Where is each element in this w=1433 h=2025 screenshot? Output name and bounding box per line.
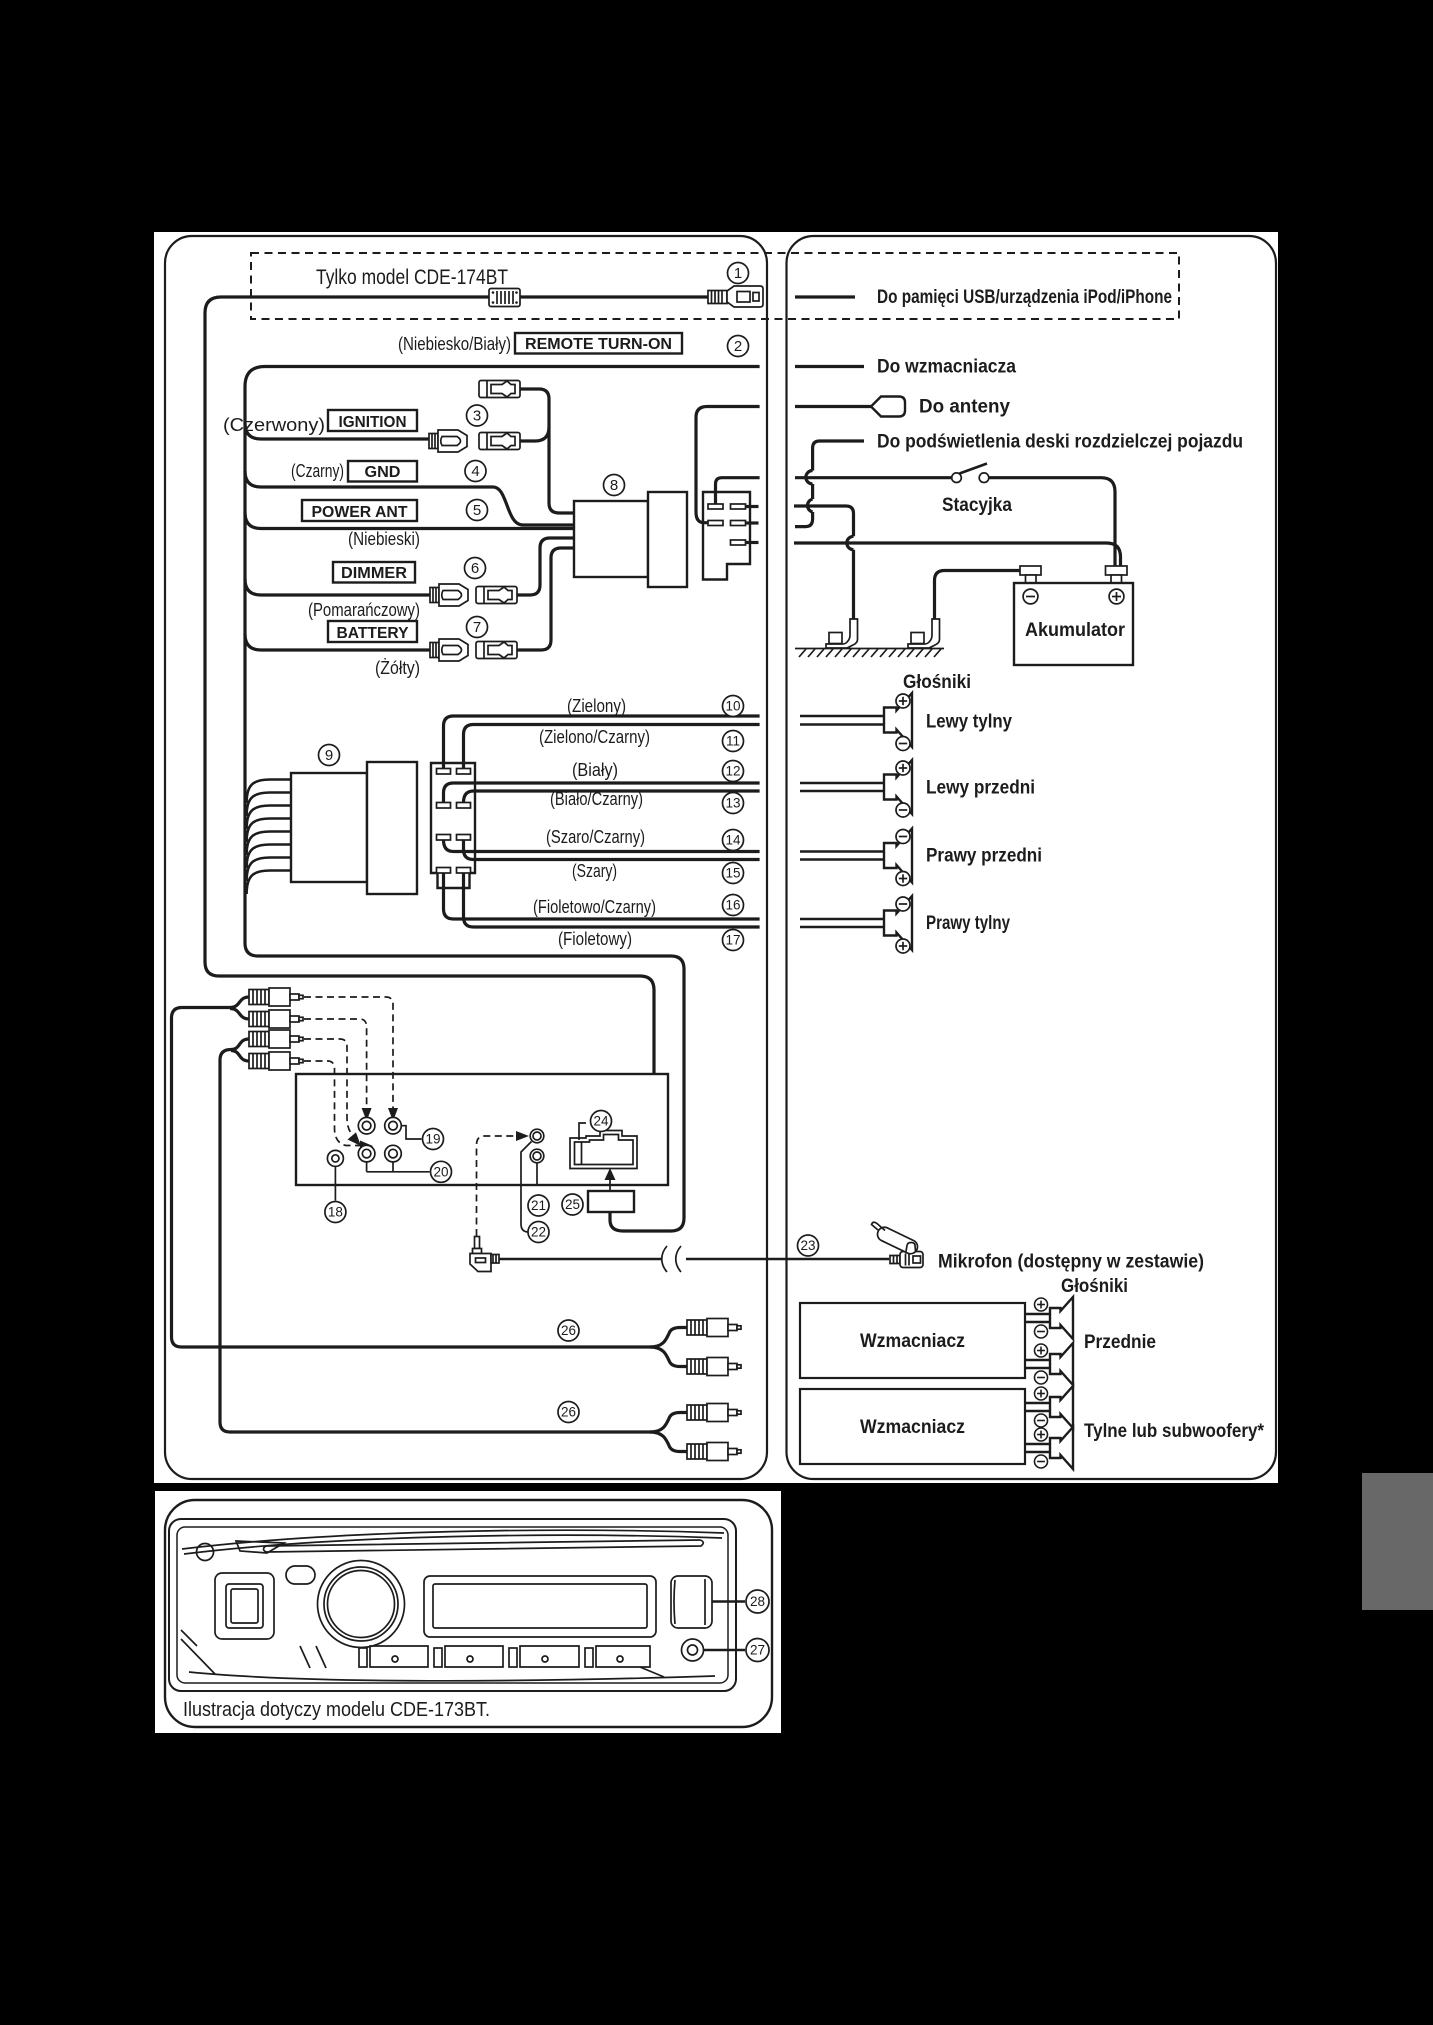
svg-text:(Czerwony): (Czerwony) — [223, 415, 325, 435]
wire: ground feed — [794, 506, 854, 621]
connector 9: harness block right — [367, 762, 417, 894]
wire: remote turn-on / spine — [245, 367, 760, 1232]
wire 16 (Fioletowo/Czarny) — [444, 873, 760, 919]
svg-text:16: 16 — [725, 898, 740, 913]
connector: RCA plug row2 — [249, 1010, 303, 1028]
jack 21 — [530, 1129, 544, 1143]
connector: ignition vehicle female (upper) — [479, 381, 520, 398]
svg-text:9: 9 — [325, 747, 333, 764]
wire 14 (Szaro/Czarny) — [444, 840, 760, 852]
svg-text:8: 8 — [610, 477, 618, 494]
cable break symbol — [662, 1246, 681, 1272]
wire 13 (Bialo/Czarny) — [464, 791, 760, 803]
switch lever — [960, 464, 988, 474]
output 26a split — [650, 1328, 687, 1367]
node: circled 5 — [467, 500, 488, 521]
ground lug 2 — [908, 619, 940, 648]
wire: stacyjka feed left part — [795, 476, 952, 479]
node: circled 6 — [465, 558, 486, 579]
left panel border — [165, 236, 767, 1479]
svg-text:27: 27 — [750, 1643, 765, 1658]
svg-text:Do wzmacniacza: Do wzmacniacza — [877, 357, 1016, 378]
connector: RCA out A2 — [687, 1358, 741, 1376]
leader to circled 18 — [334, 1167, 336, 1201]
svg-text:Lewy tylny: Lewy tylny — [926, 712, 1012, 733]
svg-text:Głośniki: Głośniki — [1061, 1276, 1128, 1297]
node circled 25 — [562, 1194, 583, 1215]
svg-text:26: 26 — [561, 1323, 576, 1338]
gray tab right edge — [1362, 1473, 1433, 1610]
amp speaker 2 — [1050, 1343, 1073, 1385]
wire stub from jack22 — [536, 1163, 538, 1186]
wire: dimmer branch — [245, 579, 430, 595]
jack 22 — [530, 1149, 544, 1163]
node circled 18 — [325, 1202, 346, 1223]
svg-text:28: 28 — [750, 1594, 765, 1609]
wire pair speaker 1 — [800, 716, 884, 725]
wire: ignition pair to junction — [520, 427, 549, 441]
wire 12 (Bialy) — [444, 783, 760, 803]
wire pair amp speaker 2 — [1025, 1360, 1050, 1368]
label box GND — [348, 461, 417, 482]
svg-text:BATTERY: BATTERY — [337, 625, 409, 642]
svg-text:Akumulator: Akumulator — [1025, 620, 1126, 641]
wire: stub pin col2 row1 — [746, 505, 759, 508]
wire: fan wire 7 — [247, 858, 291, 882]
svg-text:10: 10 — [725, 699, 740, 714]
svg-text:(Żółty): (Żółty) — [375, 658, 420, 678]
battery plus terminal — [1106, 566, 1128, 583]
node: circled 4 — [465, 461, 486, 482]
connector: ignition male — [429, 430, 467, 452]
connector: RCA out A1 — [687, 1319, 741, 1337]
wire: battery minus to ground — [935, 571, 1021, 622]
leader to circled 20 — [367, 1162, 430, 1172]
svg-text:13: 13 — [725, 796, 740, 811]
minus as4 — [1034, 1455, 1047, 1468]
svg-text:Prawy tylny: Prawy tylny — [926, 913, 1010, 934]
node: circled 9 — [319, 745, 340, 766]
battery minus symbol — [1023, 589, 1038, 604]
pin ISO r2c1 — [437, 803, 451, 809]
white sheet top — [154, 232, 1278, 1483]
connector: RCA plug row3 — [249, 1030, 303, 1048]
plus as1 — [1034, 1298, 1047, 1311]
jack 18 — [327, 1150, 343, 1166]
small circle top-left — [197, 1544, 214, 1561]
dashed lead row2 to jack 19L — [304, 1019, 367, 1108]
amplifier box 2 — [800, 1389, 1025, 1464]
wire pair amp speaker 1 — [1025, 1314, 1050, 1322]
svg-text:Tylne lub subwoofery*: Tylne lub subwoofery* — [1084, 1421, 1265, 1442]
node circled 24 — [591, 1111, 612, 1132]
bottom button row — [300, 1646, 650, 1668]
usb cover (item 28 target) — [671, 1576, 712, 1628]
label box DIMMER — [333, 562, 415, 583]
pin ISO r2c2 — [457, 803, 471, 809]
wire 10 (Zielony) — [444, 716, 760, 769]
svg-text:3: 3 — [473, 408, 481, 425]
wire pair speaker 2 — [800, 783, 884, 791]
svg-text:GND: GND — [365, 464, 401, 481]
node: circled 2 — [728, 336, 749, 357]
pin ISO r3c2 — [457, 835, 471, 841]
amp speaker 4 — [1050, 1427, 1073, 1469]
node circled 17 — [723, 930, 744, 951]
wire: GND branch into connector 8 — [245, 471, 574, 525]
svg-text:(Fioletowy): (Fioletowy) — [558, 929, 632, 949]
wire: battery branch — [245, 634, 430, 650]
svg-text:24: 24 — [593, 1114, 609, 1129]
connector: inline 4-pin connector on USB cable — [489, 289, 520, 307]
svg-text:Do pamięci USB/urządzenia iPod: Do pamięci USB/urządzenia iPod/iPhone — [877, 287, 1172, 308]
minus sp3 — [896, 830, 910, 844]
connector: RCA plug row4 — [249, 1052, 303, 1070]
wire: right amplifier remote line — [795, 365, 864, 368]
right panel border — [787, 236, 1277, 1479]
jack 19L — [358, 1117, 375, 1134]
cable: RCA pair B second plug — [231, 1051, 249, 1062]
svg-text:POWER ANT: POWER ANT — [312, 504, 408, 521]
node circled 11 — [723, 731, 744, 752]
disc slot — [264, 1540, 704, 1552]
node circled 21 — [528, 1195, 549, 1216]
svg-text:(Zielono/Czarny): (Zielono/Czarny) — [539, 727, 650, 747]
connector: vehicle ISO block — [431, 763, 475, 888]
node circled 14 — [723, 830, 744, 851]
label box IGNITION — [328, 410, 417, 431]
pin c8 col2 row1 — [731, 504, 746, 509]
white sheet bottom — [155, 1491, 781, 1733]
wire: ignition female to connector 8 — [520, 389, 574, 513]
svg-text:1: 1 — [734, 265, 742, 282]
arrow from 25 to 24 — [609, 1179, 611, 1190]
plus sp3 — [896, 872, 910, 886]
svg-text:Mikrofon (dostępny w zestawie): Mikrofon (dostępny w zestawie) — [938, 1252, 1204, 1273]
dashed box: Tylko model CDE-174BT — [251, 253, 1179, 319]
connector: battery male — [430, 639, 468, 661]
wire pair amp speaker 4 — [1025, 1444, 1050, 1452]
svg-text:Do podświetlenia deski rozdzie: Do podświetlenia deski rozdzielczej poja… — [877, 432, 1243, 453]
svg-text:4: 4 — [471, 463, 479, 480]
cable: RCA pair B to output 26b — [220, 1039, 652, 1432]
rear panel box — [296, 1074, 668, 1185]
connector: ignition female — [479, 433, 520, 450]
svg-text:Tylko model CDE-174BT: Tylko model CDE-174BT — [316, 266, 508, 289]
output 26b split — [650, 1413, 687, 1452]
svg-text:15: 15 — [725, 866, 740, 881]
wire jump-over 1 on dash illumination — [806, 471, 813, 485]
svg-text:Wzmacniacz: Wzmacniacz — [860, 1331, 965, 1352]
wire: right USB line — [795, 295, 855, 298]
bottom panel border — [165, 1500, 772, 1727]
chassis ground hatched strip — [795, 649, 944, 658]
faceplate chrome swoosh — [182, 1530, 724, 1554]
wire 15 (Szary) — [464, 840, 760, 860]
node: circled 1 — [728, 263, 749, 284]
jack 20R — [385, 1145, 402, 1162]
connector: USB plug (item 1) — [708, 286, 763, 307]
svg-text:(Szary): (Szary) — [572, 861, 617, 881]
pin ISO r1c2 — [457, 769, 471, 775]
svg-text:18: 18 — [328, 1205, 343, 1220]
svg-text:5: 5 — [473, 502, 481, 519]
pin ISO r4c1 — [437, 868, 451, 874]
speaker Prawy tylny — [884, 896, 912, 950]
connector: RCA out B1 — [687, 1404, 741, 1422]
node circled 27 — [746, 1639, 769, 1662]
wire 11 (Zielono/Czarny) — [464, 725, 760, 769]
plus sp1 — [896, 694, 910, 708]
amp speaker 1 — [1050, 1297, 1073, 1339]
wire: battery female to connector 8 — [515, 548, 574, 650]
svg-text:Lewy przedni: Lewy przedni — [926, 778, 1035, 799]
svg-text:Wzmacniacz: Wzmacniacz — [860, 1417, 965, 1438]
leader 28 — [712, 1600, 745, 1603]
head unit outer frame — [169, 1519, 736, 1691]
faceplate corner accents — [181, 1630, 715, 1681]
speaker Prawy przedni — [884, 829, 912, 883]
svg-text:IGNITION: IGNITION — [339, 414, 407, 431]
pin ISO r3c1 — [437, 835, 451, 841]
svg-text:Do anteny: Do anteny — [919, 397, 1010, 418]
plus sp4 — [896, 939, 910, 953]
pin c8 col2 row3 — [731, 540, 746, 545]
wire: fan wire 2 — [247, 793, 291, 817]
svg-text:19: 19 — [425, 1132, 440, 1147]
wire: fan wire 8 — [247, 871, 291, 895]
svg-text:DIMMER: DIMMER — [341, 565, 407, 582]
svg-text:2: 2 — [734, 338, 742, 355]
amp speaker 3 — [1050, 1386, 1073, 1428]
wire pair speaker 4 — [800, 919, 884, 927]
wire: fan wire 6 — [247, 845, 291, 869]
slot wedge — [236, 1541, 284, 1553]
plus as4 — [1034, 1428, 1047, 1441]
wire 17 (Fioletowy) — [464, 873, 760, 927]
wire: right antenna line — [795, 405, 871, 408]
svg-text:(Fioletowo/Czarny): (Fioletowo/Czarny) — [533, 897, 656, 917]
connector: RCA out B2 — [687, 1443, 741, 1461]
pin c8 col2 row2 — [731, 521, 746, 526]
node circled 19 — [423, 1129, 444, 1150]
wire: switch to battery plus — [989, 478, 1115, 566]
wire: stub pin col2 row3 — [746, 541, 759, 544]
node circled 28 — [746, 1590, 769, 1613]
node: circled 7 — [467, 617, 488, 638]
wire: dash illumination line — [795, 441, 864, 527]
square button nest — [215, 1573, 274, 1639]
wire: fan wire 1 — [247, 780, 291, 804]
node circled 23 — [798, 1235, 819, 1256]
dashed lead mic to jack 21 — [477, 1136, 517, 1236]
leader circled 24 — [579, 1123, 586, 1140]
node circled 22 — [528, 1222, 549, 1243]
minus sp2 — [896, 803, 910, 817]
svg-text:Prawy przedni: Prawy przedni — [926, 846, 1042, 867]
wire pair speaker 3 — [800, 852, 884, 860]
node circled 12 — [723, 761, 744, 782]
svg-text:(Niebieski): (Niebieski) — [348, 529, 420, 549]
node circled 16 — [723, 895, 744, 916]
display window — [424, 1576, 656, 1637]
battery minus terminal — [1020, 566, 1041, 583]
amplifier box 1 — [800, 1303, 1025, 1378]
svg-text:6: 6 — [471, 560, 479, 577]
mic cable — [499, 1258, 889, 1261]
speaker Lewy przedni — [884, 760, 912, 814]
svg-text:(Biały): (Biały) — [572, 760, 618, 780]
jack 19R — [385, 1117, 402, 1134]
node circled 26a — [558, 1320, 579, 1341]
minus as1 — [1034, 1325, 1047, 1338]
microphone icon — [872, 1222, 924, 1267]
connector 24 — [570, 1131, 637, 1169]
wire: antenna feed from pin — [696, 407, 760, 523]
cable: RCA pair A to output 26a — [172, 997, 653, 1347]
wire jump-over on ground feed — [847, 536, 854, 549]
wire: stub pin col2 row2 — [746, 521, 759, 524]
label box POWER ANT — [302, 500, 417, 521]
connector 8 left half — [574, 501, 648, 577]
svg-text:23: 23 — [800, 1238, 815, 1253]
svg-text:21: 21 — [531, 1198, 546, 1213]
svg-text:Przednie: Przednie — [1084, 1332, 1156, 1353]
connector: antenna plug — [871, 397, 905, 417]
label box REMOTE TURN-ON — [515, 333, 682, 354]
switch contact left — [952, 473, 962, 483]
svg-text:Głośniki: Głośniki — [903, 672, 971, 693]
wire: fan wire 4 — [247, 819, 291, 843]
wire: dimmer female to connector 8 — [515, 538, 574, 595]
svg-text:12: 12 — [725, 764, 740, 779]
svg-text:7: 7 — [473, 619, 481, 636]
leader 27 — [704, 1649, 745, 1652]
wire jump-over 2 on dash illumination — [808, 499, 813, 512]
label box BATTERY — [328, 621, 417, 642]
wire: USB cable trunk (item 1) left side — [205, 297, 760, 1073]
svg-text:(Pomarańczowy): (Pomarańczowy) — [308, 600, 420, 620]
plus as3 — [1034, 1387, 1047, 1400]
svg-text:(Biało/Czarny): (Biało/Czarny) — [550, 789, 643, 809]
wire pair amp speaker 3 — [1025, 1403, 1050, 1411]
node circled 20 — [431, 1161, 452, 1182]
wire from jack21 to circled 22 — [521, 1142, 532, 1233]
svg-text:(Zielony): (Zielony) — [567, 696, 626, 716]
wire: stacyjka feed from pin — [716, 478, 760, 504]
node: circled 3 — [467, 405, 488, 426]
wire: power ant branch — [245, 513, 574, 529]
wire: ignition branch — [245, 423, 429, 439]
svg-text:(Niebiesko/Biały): (Niebiesko/Biały) — [398, 334, 511, 354]
node circled 26b — [558, 1402, 579, 1423]
connector: battery female — [476, 642, 517, 659]
minus as3 — [1034, 1414, 1047, 1427]
switch contact right — [979, 473, 989, 483]
pin ISO r4c2 — [457, 868, 471, 874]
plus sp2 — [896, 761, 910, 775]
svg-text:Stacyjka: Stacyjka — [942, 495, 1012, 516]
svg-text:26: 26 — [561, 1405, 576, 1420]
cable: RCA pair A second plug — [230, 1009, 249, 1020]
pin ISO r1c1 — [437, 769, 451, 775]
aux jack (item 27 target) — [682, 1639, 704, 1661]
minus sp1 — [896, 737, 910, 751]
dashed lead row1 to jack 19R — [304, 997, 393, 1108]
box 25 — [588, 1191, 634, 1212]
connector: dimmer male — [430, 584, 468, 606]
svg-text:20: 20 — [433, 1164, 448, 1179]
dashed lead row4 to jack 20R — [304, 1061, 360, 1146]
jack 20L — [358, 1145, 375, 1162]
ground lug 1 — [826, 619, 858, 648]
connector: RCA plug row1 — [249, 988, 303, 1006]
leader to circled 19 — [402, 1126, 422, 1139]
mic 3.5mm right-angle plug — [470, 1237, 499, 1272]
wire: battery plus feed lower — [794, 543, 1121, 566]
node: circled 8 — [604, 475, 625, 496]
svg-text:17: 17 — [725, 933, 740, 948]
connector: dimmer female — [476, 587, 517, 604]
battery plus symbol — [1109, 589, 1124, 604]
svg-text:Ilustracja dotyczy modelu CDE-: Ilustracja dotyczy modelu CDE-173BT. — [183, 1699, 490, 1721]
speaker Lewy tylny — [884, 693, 912, 747]
plus as2 — [1034, 1344, 1047, 1357]
pill button — [286, 1566, 315, 1584]
svg-text:25: 25 — [565, 1197, 580, 1212]
connector 9: harness block left — [291, 773, 367, 882]
head unit inner frame — [177, 1527, 728, 1683]
battery body — [1014, 583, 1133, 665]
wire: fan wire 3 — [247, 806, 291, 830]
node circled 13 — [723, 793, 744, 814]
pin c8 col1 row1 — [708, 504, 723, 509]
wire: fan wire 5 — [247, 832, 291, 856]
svg-text:(Czarny): (Czarny) — [291, 461, 344, 481]
svg-text:(Szaro/Czarny): (Szaro/Czarny) — [546, 827, 645, 847]
connector: vehicle side of 8 — [703, 492, 750, 580]
node circled 15 — [723, 863, 744, 884]
svg-text:22: 22 — [531, 1225, 546, 1240]
volume knob — [318, 1561, 405, 1648]
minus as2 — [1034, 1371, 1047, 1384]
svg-text:11: 11 — [726, 734, 740, 749]
connector 8 right half — [648, 492, 687, 587]
pin c8 col1 row2 — [708, 521, 723, 526]
svg-text:14: 14 — [725, 833, 741, 848]
minus sp4 — [896, 897, 910, 911]
dashed lead row3 to jack 20L — [304, 1039, 354, 1136]
node circled 10 — [723, 696, 744, 717]
svg-text:REMOTE TURN-ON: REMOTE TURN-ON — [525, 336, 672, 353]
